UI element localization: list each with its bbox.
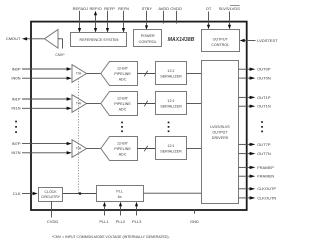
svg-text:CVDD: CVDD <box>47 219 58 224</box>
pin OUT0N <box>239 76 271 81</box>
svg-text:FRAMEP: FRAMEP <box>257 165 274 170</box>
ellipsis ADC column <box>121 122 123 132</box>
svg-text:OUTPUT: OUTPUT <box>213 38 229 42</box>
svg-text:IN7P: IN7P <box>12 141 21 146</box>
svg-text:CONTROL: CONTROL <box>139 40 157 44</box>
svg-text:AVDD: AVDD <box>158 6 169 11</box>
LVDS/SLVS output drivers block <box>202 61 239 204</box>
svg-text:ADC: ADC <box>119 107 127 111</box>
pin OUT1P <box>239 95 271 100</box>
T/H amp channel 1 <box>72 95 87 113</box>
wire T/H7 to ADC7 <box>87 148 102 150</box>
pin REFP <box>104 6 115 33</box>
svg-text:OUT0N: OUT0N <box>257 76 271 81</box>
pin GND <box>190 209 199 224</box>
pin IN0N <box>11 76 71 81</box>
svg-text:STBY: STBY <box>142 6 153 11</box>
svg-text:OUT0P: OUT0P <box>257 67 271 72</box>
svg-text:12:1: 12:1 <box>167 144 174 148</box>
svg-text:6x: 6x <box>118 195 122 199</box>
part label MAX1438B <box>168 37 195 43</box>
bus wire ADC1 to serializer 1 <box>138 101 156 107</box>
bus wire ADC7 to serializer 7 <box>138 146 156 152</box>
svg-text:CMV*: CMV* <box>55 53 65 57</box>
svg-text:CLOCK: CLOCK <box>44 190 57 194</box>
svg-text:PIPELINE: PIPELINE <box>114 72 131 76</box>
svg-text:LVDSTEST: LVDSTEST <box>257 38 278 43</box>
svg-text:LVDS/SLVS: LVDS/SLVS <box>210 125 230 129</box>
svg-text:CLKOUTP: CLKOUTP <box>257 186 276 191</box>
pin CLKOUTN <box>239 195 277 200</box>
pin REFIO <box>89 6 101 33</box>
svg-text:GND: GND <box>190 219 199 224</box>
svg-text:ADC: ADC <box>119 152 127 156</box>
wire serializer 7 to drivers <box>187 148 202 150</box>
svg-text:MAX1438B: MAX1438B <box>168 37 195 43</box>
pin OUT7N <box>239 151 271 156</box>
svg-text:12-BIT: 12-BIT <box>117 141 129 145</box>
pin OT <box>206 6 212 29</box>
svg-text:OUTPUT: OUTPUT <box>212 131 228 135</box>
pin FRAMEN <box>239 174 275 179</box>
svg-text:FRAMEN: FRAMEN <box>257 174 274 179</box>
wire PLL to drivers <box>144 192 202 194</box>
pin FRAMEP <box>239 165 275 170</box>
svg-text:PIPELINE: PIPELINE <box>114 147 131 151</box>
ADC channel 7 <box>101 137 138 161</box>
ellipsis output pins <box>261 121 263 132</box>
pin CLK <box>13 191 38 196</box>
PLL block <box>97 186 144 202</box>
output control block <box>202 30 240 52</box>
svg-text:OUT1P: OUT1P <box>257 95 271 100</box>
svg-text:CLK: CLK <box>13 191 21 196</box>
svg-text:SERIALIZER: SERIALIZER <box>160 104 182 108</box>
svg-text:REFP: REFP <box>104 6 115 11</box>
svg-text:REFIO: REFIO <box>89 6 101 11</box>
dotted clock distribution line <box>78 79 80 194</box>
junction clock node <box>79 192 82 195</box>
ellipsis input pins <box>15 121 17 133</box>
svg-text:CIRCUITRY: CIRCUITRY <box>41 195 61 199</box>
svg-text:PLL: PLL <box>116 190 123 194</box>
svg-text:CONTROL: CONTROL <box>211 43 229 47</box>
svg-text:REFADJ: REFADJ <box>73 6 88 11</box>
svg-text:OUT7P: OUT7P <box>257 142 271 147</box>
svg-text:12-BIT: 12-BIT <box>117 96 129 100</box>
pin IN1N <box>11 106 71 111</box>
svg-text:12:1: 12:1 <box>167 99 174 103</box>
pin STBY <box>142 6 153 30</box>
buffer amp CMV <box>45 30 66 58</box>
wire T/H0 to ADC0 <box>87 73 102 75</box>
wire serializer 0 to drivers <box>187 73 202 75</box>
svg-text:12-BIT: 12-BIT <box>117 66 129 70</box>
svg-text:PLL3: PLL3 <box>132 219 142 224</box>
wire T/H1 to ADC1 <box>87 103 102 105</box>
svg-text:SERIALIZER: SERIALIZER <box>160 74 182 78</box>
pin CVDD <box>47 202 58 225</box>
svg-text:OUT1N: OUT1N <box>257 104 271 109</box>
chip outline U1 <box>31 22 247 210</box>
pin CLKOUTP <box>239 186 277 191</box>
pin IN1P <box>12 96 72 101</box>
pin IN0P <box>12 66 72 71</box>
wire clock to PLL <box>63 193 96 195</box>
pin IN7N <box>11 150 71 155</box>
T/H amp channel 0 <box>72 65 87 83</box>
reference system block <box>71 33 127 47</box>
svg-text:REFERENCE SYSTEM: REFERENCE SYSTEM <box>80 38 119 42</box>
pin OUT0P <box>239 67 271 72</box>
svg-text:ADC: ADC <box>119 77 127 81</box>
ADC channel 0 <box>101 62 138 86</box>
svg-text:12:1: 12:1 <box>167 69 174 73</box>
svg-text:*CMV = INPUT COMMON-MODE VOLTA: *CMV = INPUT COMMON-MODE VOLTAGE (INTERN… <box>52 235 170 239</box>
svg-text:SLVS/LVDS: SLVS/LVDS <box>219 6 241 11</box>
pin REFADJ <box>73 6 88 33</box>
svg-text:REFN: REFN <box>118 6 129 11</box>
pin OUT1N <box>239 104 271 109</box>
pin SLVS/LVDS <box>219 6 241 30</box>
svg-text:IN1P: IN1P <box>12 96 21 101</box>
svg-text:IN0N: IN0N <box>11 76 20 81</box>
svg-text:T/H: T/H <box>76 72 82 76</box>
ellipsis serializer column <box>168 122 170 132</box>
bus wire ADC0 to serializer 0 <box>138 71 156 77</box>
pin AVDD <box>158 6 169 24</box>
svg-text:PIPELINE: PIPELINE <box>114 102 131 106</box>
wire serializer 1 to drivers <box>187 103 202 105</box>
pin PLL2 <box>116 202 126 224</box>
serializer channel 7 <box>156 137 187 160</box>
svg-text:IN7N: IN7N <box>11 150 20 155</box>
ADC channel 1 <box>101 92 138 116</box>
pin OVDD <box>170 6 182 24</box>
svg-text:PLL2: PLL2 <box>116 219 126 224</box>
pin PLL1 <box>99 202 109 224</box>
svg-text:DRIVERS: DRIVERS <box>212 136 229 140</box>
svg-text:POWER: POWER <box>141 34 155 38</box>
serializer channel 0 <box>156 62 187 85</box>
svg-text:PLL1: PLL1 <box>99 219 109 224</box>
pin REFN <box>118 6 129 33</box>
footnote <box>52 235 170 239</box>
pin PLL3 <box>132 202 142 224</box>
svg-text:IN1N: IN1N <box>11 106 20 111</box>
pin CMOUT <box>6 36 45 41</box>
svg-text:SERIALIZER: SERIALIZER <box>160 149 182 153</box>
clock circuitry block <box>39 188 63 202</box>
serializer channel 1 <box>156 92 187 115</box>
svg-text:OT: OT <box>206 6 212 11</box>
svg-text:IN0P: IN0P <box>12 66 21 71</box>
svg-text:OUT7N: OUT7N <box>257 151 271 156</box>
svg-text:OVDD: OVDD <box>170 6 182 11</box>
pin LVDSTEST <box>240 38 279 43</box>
T/H amp channel 7 <box>72 140 87 158</box>
power control block <box>134 30 162 47</box>
svg-text:CMOUT: CMOUT <box>6 36 21 41</box>
pin IN7P <box>12 141 72 146</box>
pin OUT7P <box>239 142 271 147</box>
svg-text:CLKOUTN: CLKOUTN <box>257 195 276 200</box>
